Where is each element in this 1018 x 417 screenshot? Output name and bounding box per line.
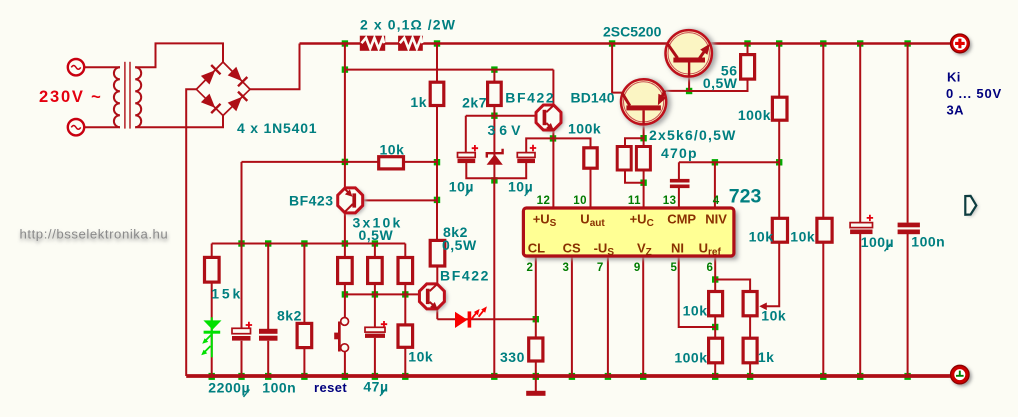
output terminal + (Ki) (951, 34, 972, 55)
svg-text:7: 7 (597, 262, 604, 274)
svg-text:10k: 10k (408, 349, 433, 365)
wire y69.6 branch (345, 69, 554, 71)
resistor 8k2 0,5W (430, 240, 445, 266)
resistor 0.1R-1 (current sense) (360, 36, 385, 51)
node top-rail/10k (820, 40, 826, 46)
wire y162 (2200u corner to 1k bottom, via 10k) (242, 161, 438, 163)
svg-text:1k: 1k (758, 349, 775, 365)
wire -Us pin to rail (607, 256, 609, 376)
wire top rail (300, 42, 951, 44)
svg-text:3A: 3A (947, 103, 965, 118)
node y294.4 / 47u (372, 291, 378, 297)
resistor 2k7 (488, 82, 502, 105)
svg-text:BF423: BF423 (289, 193, 334, 209)
label 56 0,5W (703, 63, 738, 92)
label 2200u (208, 380, 250, 398)
ground symbol (under 330) (526, 391, 545, 396)
svg-text:100µ: 100µ (861, 234, 894, 250)
svg-text:723: 723 (729, 186, 762, 208)
node BD140 base / 5k6 tops (640, 135, 646, 141)
capacitor 100n output (898, 223, 920, 235)
svg-text:NI: NI (671, 241, 684, 256)
svg-text:10: 10 (573, 195, 587, 207)
capacitor 10u right (electrolytic) (517, 145, 536, 163)
bridge diode D1 (top-left, pointing to top corner) (201, 65, 221, 85)
svg-text:10k: 10k (790, 229, 815, 245)
wire 8k2 column (303, 244, 305, 377)
wire 2k7/zener column (493, 70, 495, 181)
wire NIV pin (714, 162, 716, 208)
node LED wire / CL (533, 316, 539, 322)
node y243.5 / 10k-2 (372, 240, 378, 246)
node rail/-Us (605, 373, 611, 380)
node NI / 10k-100k divider (712, 324, 718, 330)
wire bridge-right to top rail (250, 44, 300, 90)
svg-text:10k: 10k (761, 308, 786, 324)
wire 5k6 bottoms (625, 170, 644, 183)
wire base node to 56 (689, 79, 747, 91)
node rail/100k-divider (712, 373, 718, 380)
node y243.5 / 8k2 (301, 240, 307, 246)
node rail/330-CL (533, 373, 539, 380)
label 10u right (508, 179, 533, 197)
svg-text:4 x 1N5401: 4 x 1N5401 (237, 120, 317, 136)
wire 470p top leg (678, 162, 680, 179)
transistor Q1 BF423 (338, 188, 366, 215)
wire 5k6 to +Uc pin (643, 170, 645, 208)
svg-text:36V: 36V (488, 122, 525, 138)
svg-text:47µ: 47µ (363, 379, 388, 395)
resistor 10k-c (772, 218, 787, 242)
wire 2SC5200 base leg (688, 62, 690, 92)
node top-rail/BD140 collector (609, 40, 615, 46)
wire x779 (rail,100k,10k,pot wiper) (766, 44, 780, 307)
svg-text:CL: CL (528, 241, 545, 256)
wire 100u column (859, 44, 861, 377)
AC source terminal top (68, 59, 84, 75)
wire CS pin to rail (571, 256, 573, 376)
node y294.4 / reset (342, 291, 348, 297)
IC labels bottom row (528, 241, 722, 259)
wire x345 vertical (BF423 to reset) (344, 212, 346, 319)
resistor 100k (to Uaut) (584, 148, 597, 168)
node top-rail/56 (744, 40, 750, 46)
node rail/zener-line (491, 373, 497, 380)
label 8k2 0,5W (442, 224, 477, 253)
capacitor 47u (electrolytic) (365, 321, 387, 338)
resistor 10k-2 of 3x10k (368, 258, 383, 284)
capacitor 10u left (electrolytic) (458, 145, 479, 163)
IC labels top row (533, 212, 728, 230)
wire CMP net horizontal (679, 161, 779, 163)
node CMP-line / 100k-bottom (776, 159, 782, 165)
wire 100n-c column (907, 44, 909, 377)
svg-text:6: 6 (707, 262, 714, 274)
svg-text:http://bsselektronika.hu: http://bsselektronika.hu (20, 227, 169, 242)
node rail/CS (569, 373, 575, 380)
svg-text:100k: 100k (568, 121, 601, 137)
wire BF422b emitter leg (436, 309, 438, 320)
resistor 1k (divider) (743, 338, 757, 363)
svg-text:2 x 0,1Ω /2W: 2 x 0,1Ω /2W (360, 17, 456, 33)
svg-text:CMP: CMP (667, 212, 696, 227)
watermark http://bsselektronika.hu (20, 227, 169, 244)
svg-text:2x5k6/0,5W: 2x5k6/0,5W (649, 127, 737, 143)
svg-text:230V ~: 230V ~ (39, 88, 103, 106)
svg-text:100n: 100n (911, 234, 945, 250)
node top-rail/100n (904, 40, 910, 46)
svg-text:10k: 10k (380, 142, 405, 158)
wire secondary-top to bridge top (135, 43, 223, 67)
svg-text:5: 5 (671, 262, 678, 274)
svg-text:0 ... 50V: 0 ... 50V (946, 86, 1002, 101)
wire CL pin to 330 to rail (535, 256, 537, 376)
wire Uref pin through divider to rail (714, 256, 716, 376)
wire 47u column (374, 244, 376, 377)
svg-text:2: 2 (527, 262, 534, 274)
svg-text:0,5W: 0,5W (442, 237, 477, 253)
svg-text:0,5W: 0,5W (359, 227, 394, 243)
wire 10u bottoms (466, 162, 526, 178)
node y162/x345 (342, 159, 348, 165)
node rail/reset (342, 373, 348, 380)
node top-rail/1k (434, 40, 440, 46)
node y69.6/2k7 (491, 66, 497, 72)
wire AC1 to primary (85, 66, 121, 68)
node top-rail/100k (776, 40, 782, 46)
svg-text:10k: 10k (749, 229, 774, 245)
svg-text:2SC5200: 2SC5200 (603, 24, 662, 40)
svg-text:3: 3 (563, 262, 570, 274)
wire Vz pin to rail (642, 256, 644, 376)
transformer TR1 secondary coil (135, 67, 141, 127)
node 2k7-bottom / zener top (491, 113, 497, 119)
svg-text:15k: 15k (211, 286, 243, 302)
transistor Q3 BF422 (lower) (419, 284, 447, 312)
capacitor 100u output (electrolytic) (850, 215, 873, 234)
label 3x10k 0,5W (353, 215, 403, 244)
IC pin numbers top (537, 195, 720, 207)
node rail/100n-c (904, 373, 910, 380)
wire reset to rail (344, 351, 346, 376)
push button reset (334, 318, 348, 352)
resistor 0.1R-2 (current sense) (398, 36, 423, 51)
wire x823 (rail to ground) (822, 44, 824, 377)
resistor 8k2 (left) (297, 323, 312, 347)
resistor 10k-e (817, 218, 832, 242)
svg-text:11: 11 (628, 195, 641, 207)
node rail/10k-e (820, 373, 826, 380)
svg-text:BF422: BF422 (505, 90, 555, 106)
wire BF423 base (356, 199, 437, 201)
resistor 10k (col3 bottom) (398, 325, 413, 347)
svg-text:BF422: BF422 (440, 268, 490, 284)
resistor 15k (205, 257, 220, 282)
wire ground-symbol stub (535, 376, 537, 391)
wire BD140 base to 5k6 (643, 110, 645, 147)
label Ki 0...50V 3A (946, 69, 1002, 117)
capacitor 100n (bottom) (259, 329, 278, 341)
capacitor 2200u (electrolytic) (232, 322, 252, 341)
resistor 56 (741, 55, 755, 80)
wire bridge-left to ground rail (long left vertical) (186, 89, 196, 376)
wire 10u-left top leg (465, 116, 467, 154)
zener diode 36V (487, 149, 503, 165)
junction nodes (green squares, drawn under wires) (209, 40, 911, 380)
wire 10k-3 column (404, 244, 406, 377)
LED red (CL indicator) (455, 306, 487, 328)
wire y115.7 base node (466, 115, 543, 117)
node rail/LED (209, 373, 215, 380)
node y162/1k-bottom (434, 159, 440, 165)
resistor 100k (divider lower) (709, 338, 723, 363)
svg-text:Ki: Ki (947, 69, 961, 84)
potentiometer 10k (743, 292, 767, 316)
svg-text:2k7: 2k7 (462, 95, 487, 111)
resistor 5k6-2 (636, 147, 650, 171)
resistor 10k-3 of 3x10k (398, 258, 413, 284)
wire x345 vertical (rail to BF423) (344, 44, 346, 190)
node y243.5 / 100n (265, 240, 271, 246)
node top-rail/x345 (342, 40, 348, 46)
transformer TR1 primary coil (114, 67, 120, 127)
svg-text:CS: CS (563, 241, 581, 256)
bridge diode D3 (bottom-left, pointing to bottom corner) (201, 94, 221, 114)
wire 5k6-left top (625, 138, 644, 146)
node rail/2200u (238, 373, 244, 380)
AC source terminal bottom (68, 119, 84, 135)
label 47u (363, 379, 388, 397)
wire 10u-right to +Us node (526, 138, 590, 153)
node rail/100n (265, 373, 271, 380)
resistor 10k-1 of 3x10k (338, 258, 353, 284)
wire BF422b emitter to LED to CL node (437, 318, 536, 320)
node rail/Vz (640, 373, 646, 380)
svg-text:100k: 100k (738, 107, 771, 123)
resistor 330 (529, 338, 543, 361)
transistor Q2 BF422 (upper) (536, 105, 564, 132)
IC 723 regulator box (523, 208, 737, 260)
LED green (power indicator) (201, 317, 221, 357)
wire 56 top (747, 44, 749, 55)
transistor Q5 2SC5200 (666, 29, 717, 79)
svg-text:1k: 1k (410, 94, 427, 110)
wire y243.5 reference node (212, 243, 406, 245)
resistor 100k (pass driver) (772, 97, 787, 120)
transformer TR1 core (125, 62, 130, 129)
wire 15k/LED column (211, 244, 213, 377)
node y294.4 / 10k-3 (402, 291, 408, 297)
wire bottom ground rail (186, 374, 951, 378)
wire secondary-bottom to bridge bottom (135, 116, 223, 128)
label 100u output (861, 234, 894, 252)
bridge diode D2 (top-right, pointing to right corner) (228, 67, 248, 87)
node rail/1k (747, 373, 753, 380)
node CMP-line / NIV (712, 159, 718, 165)
wire zener node to ground rail (493, 180, 495, 376)
wire NI pin to divider (679, 256, 716, 327)
wire 100n column (267, 244, 269, 377)
svg-text:470p: 470p (661, 145, 698, 161)
resistor 10k (divider upper) (709, 292, 723, 316)
node rail/100u (857, 373, 863, 380)
svg-text:9: 9 (634, 262, 641, 274)
svg-text:4: 4 (713, 195, 720, 207)
svg-text:NIV: NIV (705, 212, 727, 227)
svg-text:0,5W: 0,5W (703, 75, 738, 91)
node 2SC5200 base / BD140 emitter (686, 88, 692, 94)
label 10u left (449, 179, 474, 197)
bridge rectifier diamond (196, 62, 250, 116)
svg-text:8k2: 8k2 (277, 308, 302, 324)
node top-rail/100u (857, 40, 863, 46)
wire BF422a collector leg (552, 70, 554, 106)
capacitor 470p (670, 179, 690, 188)
node y69.6/x345 (342, 66, 348, 72)
node +Us / BF422 emitter (550, 135, 556, 141)
svg-text:12: 12 (537, 195, 551, 207)
wire BD140 collector to rail (612, 44, 622, 93)
wire 8k2b to BF422b collector (436, 266, 438, 284)
svg-text:13: 13 (663, 195, 677, 207)
node 5k6 bottoms / +Uc (640, 180, 646, 186)
svg-text:2200µ: 2200µ (208, 380, 250, 396)
wire x437 (rail,1k,BF423 base,8k2) (436, 44, 438, 241)
wire AC2 to primary (85, 126, 121, 128)
svg-text:100k: 100k (674, 350, 707, 366)
node rail/10k-bottom (402, 373, 408, 380)
svg-text:reset: reset (314, 380, 347, 395)
node BF423 base / 8k2 (434, 197, 440, 203)
node rail/8k2 (301, 373, 307, 380)
svg-text:330: 330 (500, 349, 525, 365)
node y243.5 / 2200u (238, 240, 244, 246)
svg-text:10k: 10k (683, 303, 708, 319)
wire x241.5 (y162 to 2200u to rail) (241, 162, 243, 376)
wire 470p to CMP pin (678, 188, 680, 208)
transistor Q4 BD140 (621, 79, 671, 128)
wire BD140 emitter to base node (664, 90, 689, 92)
resistor 10k (horizontal) (379, 157, 404, 169)
svg-text:100n: 100n (262, 380, 296, 396)
node y243.5 / BF423 collector / 10k-1 (342, 240, 348, 246)
svg-text:10µ: 10µ (508, 179, 533, 195)
bridge diode D4 (bottom-right, pointing to right corner) (228, 92, 248, 112)
svg-text:10µ: 10µ (449, 179, 474, 195)
wire 100k-b to Uaut pin (590, 168, 592, 208)
wire y294.4 to BF422 base (345, 293, 426, 295)
node zener bottom (491, 177, 497, 183)
wire Uref branch to potentiometer (715, 280, 750, 377)
output arrow icon (965, 196, 978, 216)
svg-text:BD140: BD140 (571, 90, 615, 106)
node rail/47u (372, 373, 378, 380)
output terminal ground (951, 365, 972, 386)
node Uref / pot branch (712, 276, 718, 282)
wire BF422a emitter to +Us pin (552, 130, 554, 209)
IC pin numbers bottom (527, 262, 714, 274)
resistor 1k (430, 82, 444, 105)
resistor 5k6-1 (617, 147, 631, 171)
